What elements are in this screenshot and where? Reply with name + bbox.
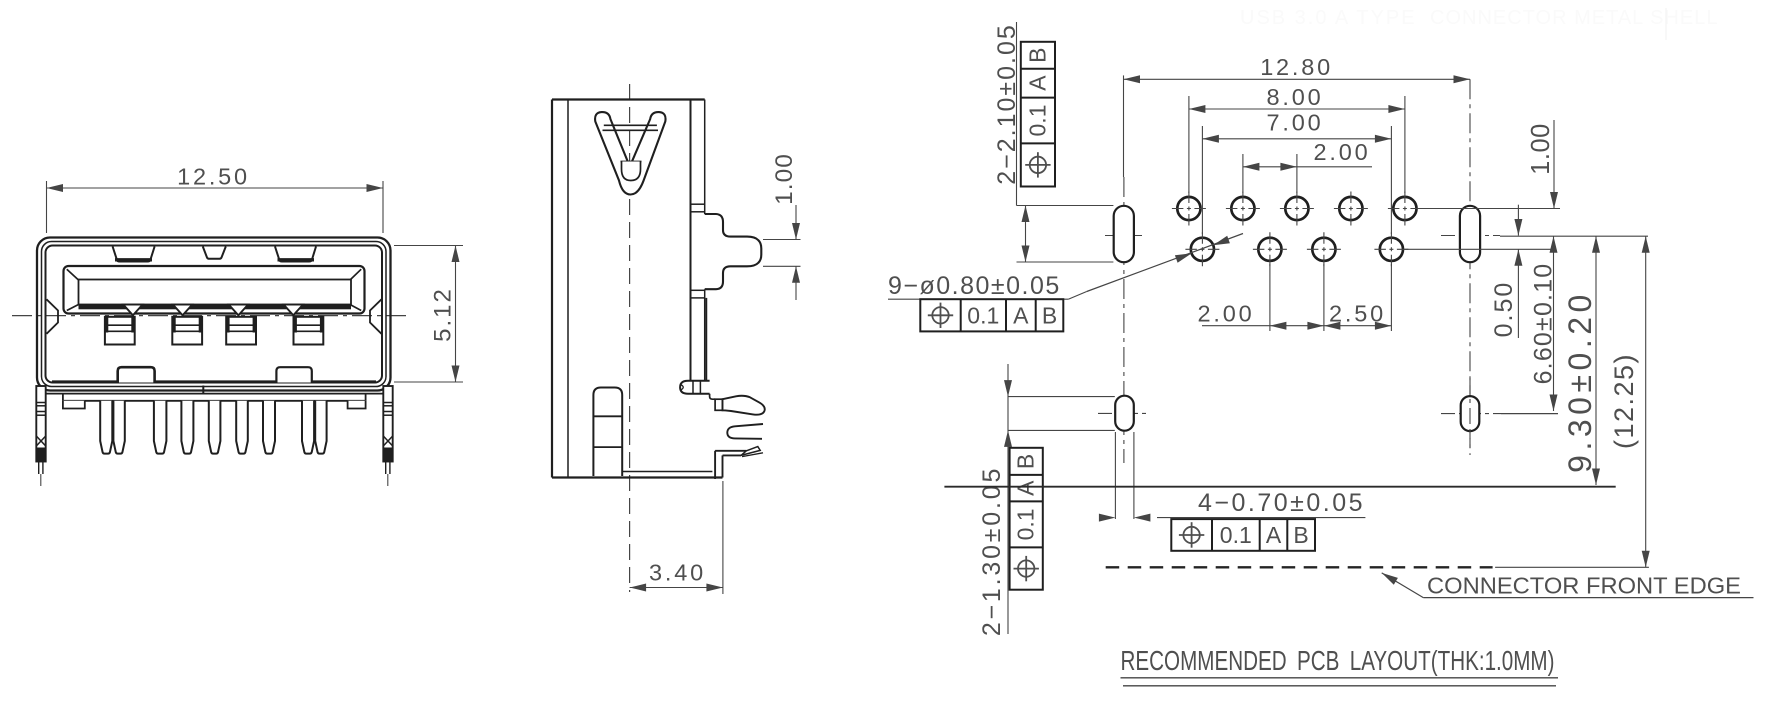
connector front edge dashed line bbox=[1106, 566, 1649, 568]
front view top spring tab left bbox=[113, 247, 155, 262]
dimension 2.00 / 2.50 bottom bbox=[1198, 264, 1392, 331]
horizontal datum line through upper slots bbox=[1105, 235, 1648, 238]
side view bottom edge bbox=[552, 472, 723, 478]
hole top row #1 bbox=[1172, 192, 1206, 226]
hole top row #2 bbox=[1226, 192, 1260, 226]
dimension 0.50 bbox=[1403, 205, 1556, 338]
feature control frame for 4-0.70 bbox=[1171, 519, 1315, 551]
feature control frame for 2-1.30 slots bbox=[1010, 448, 1043, 590]
side view SMT contact finger lower bbox=[727, 424, 763, 439]
front view mounting leg left bbox=[36, 386, 45, 486]
vertical centerline through left slots bbox=[1123, 75, 1125, 463]
svg-text:A: A bbox=[1013, 480, 1039, 496]
side view dashed centerline bbox=[629, 84, 631, 592]
side view body outline bbox=[552, 100, 705, 478]
front view mounting leg right bbox=[383, 386, 392, 486]
svg-text:0.50: 0.50 bbox=[1490, 281, 1518, 338]
side view through pin shaft bbox=[680, 298, 710, 394]
front view bottom tab left bbox=[118, 367, 155, 382]
svg-text:B: B bbox=[1013, 454, 1039, 469]
svg-text:A: A bbox=[1013, 302, 1029, 328]
front view bottom center seam bbox=[202, 386, 204, 394]
hole top row #3 bbox=[1280, 192, 1314, 226]
svg-text:2.00: 2.00 bbox=[1198, 301, 1255, 327]
svg-text:0.1: 0.1 bbox=[1024, 105, 1050, 137]
feature control frame for 9 holes bbox=[920, 299, 1063, 331]
label CONNECTOR FRONT EDGE bbox=[1382, 573, 1754, 599]
front view tongue outer prism bbox=[64, 266, 365, 314]
vertical centerline through right slots bbox=[1469, 79, 1471, 455]
svg-text:CONNECTOR METAL SHELL: CONNECTOR METAL SHELL bbox=[1430, 7, 1718, 29]
svg-text:12.50: 12.50 bbox=[177, 164, 250, 190]
svg-text:B: B bbox=[1024, 48, 1050, 63]
svg-text:(12.25): (12.25) bbox=[1609, 353, 1639, 449]
svg-text:USB 3.0 A TYPE: USB 3.0 A TYPE bbox=[1240, 7, 1417, 29]
front view top spring tab center bbox=[203, 247, 226, 259]
dimension 9.30+-0.20 bbox=[1562, 236, 1600, 485]
front view tongue front face bbox=[79, 280, 352, 305]
lower slot vertical centerline right bbox=[1469, 378, 1471, 448]
PCB reference edge line bbox=[944, 486, 1615, 488]
svg-text:0.1: 0.1 bbox=[1013, 508, 1039, 540]
svg-text:RECOMMENDED PCB LAYOUT(THK:1.0: RECOMMENDED PCB LAYOUT(THK:1.0MM) bbox=[1121, 645, 1555, 676]
hole bottom row #2 bbox=[1253, 232, 1287, 266]
side view left leg block bbox=[593, 388, 622, 477]
front view tongue contact V-notches (4) bbox=[123, 305, 303, 316]
dimension 5.12 vertical (front view height) bbox=[394, 246, 463, 383]
front view horizontal centerline bbox=[12, 315, 410, 317]
front view top spring tab right bbox=[275, 247, 316, 262]
svg-text:B: B bbox=[1042, 302, 1057, 328]
svg-text:4−0.70±0.05: 4−0.70±0.05 bbox=[1198, 489, 1365, 517]
dimension 4-0.70+-0.05 slot width bbox=[1099, 432, 1366, 522]
front view left wall notch bbox=[47, 299, 59, 334]
front view outer shell (3 nested rounded rects) bbox=[37, 238, 391, 391]
label 2-1.30+-0.05 with extension bbox=[978, 364, 1115, 636]
slot 2.10x0.8 upper left bbox=[1114, 206, 1134, 262]
side view V-shaped latch spring bbox=[595, 112, 665, 194]
svg-text:6.60±0.10: 6.60±0.10 bbox=[1530, 263, 1558, 385]
dimension (12.25) bbox=[1609, 236, 1650, 567]
front view bottom tab right bbox=[276, 367, 311, 382]
dimension 1.00 (tab thickness, side view) bbox=[763, 153, 801, 300]
front view base foot right bbox=[348, 401, 366, 409]
dimension 12.50 horizontal (front view width) bbox=[47, 164, 384, 234]
front view tongue thick bottom band bbox=[79, 304, 352, 309]
front view base plate bbox=[46, 394, 388, 401]
svg-text:9.30±0.20: 9.30±0.20 bbox=[1562, 290, 1598, 473]
svg-text:A: A bbox=[1024, 75, 1050, 91]
side view SMT contact finger upper bbox=[710, 394, 765, 415]
dimension 3.40 (side view) bbox=[630, 481, 723, 594]
hole bottom row #1 bbox=[1185, 232, 1219, 266]
hole top row #4 bbox=[1334, 192, 1368, 226]
front view lower contacts (4) bbox=[105, 317, 323, 345]
svg-text:2−1.30±0.05: 2−1.30±0.05 bbox=[978, 466, 1006, 636]
dimension 1.00 (hole row to datum) bbox=[1418, 120, 1560, 209]
svg-text:CONNECTOR FRONT EDGE: CONNECTOR FRONT EDGE bbox=[1427, 573, 1741, 599]
svg-text:1.00: 1.00 bbox=[1527, 123, 1555, 175]
front view bottom inner edge thick line bbox=[52, 380, 376, 383]
svg-text:12.80: 12.80 bbox=[1260, 54, 1333, 80]
dimension 7.00 bbox=[1202, 110, 1391, 235]
dimension 8.00 bbox=[1189, 84, 1405, 193]
side view board-lock tab bbox=[705, 214, 762, 289]
svg-text:2.00: 2.00 bbox=[1314, 139, 1371, 165]
svg-text:A: A bbox=[1266, 522, 1282, 548]
svg-text:9−ø0.80±0.05: 9−ø0.80±0.05 bbox=[888, 272, 1061, 300]
slot 1.30x0.7 lower right bbox=[1461, 396, 1480, 431]
svg-text:0.1: 0.1 bbox=[967, 302, 999, 328]
label 9-dia0.80+-0.05 bbox=[888, 272, 1087, 300]
svg-text:1.00: 1.00 bbox=[771, 153, 798, 205]
front view tongue chamfer diagonals bbox=[67, 269, 361, 310]
label 2-2.10+-0.05 with extension bbox=[993, 22, 1113, 262]
slot 2.10x0.8 upper right bbox=[1460, 206, 1480, 262]
svg-text:7.00: 7.00 bbox=[1267, 110, 1324, 136]
dimension 2.00 top bbox=[1243, 139, 1372, 193]
svg-text:8.00: 8.00 bbox=[1267, 84, 1324, 110]
svg-text:5.12: 5.12 bbox=[430, 287, 457, 342]
feature control frame for 2-2.10 slots bbox=[1021, 42, 1055, 187]
horizontal centerlines through lower slots bbox=[1098, 412, 1558, 414]
svg-text:2.50: 2.50 bbox=[1329, 301, 1386, 327]
svg-text:3.40: 3.40 bbox=[649, 560, 706, 586]
dimension 6.60+-0.10 bbox=[1530, 236, 1558, 411]
slot 1.30x0.7 lower left bbox=[1115, 396, 1134, 431]
svg-text:0.1: 0.1 bbox=[1220, 522, 1252, 548]
front view right wall notch bbox=[370, 299, 382, 334]
hole top row #5 bbox=[1388, 192, 1422, 226]
faint ghost text artifacts at top bbox=[1240, 7, 1718, 40]
svg-text:B: B bbox=[1293, 522, 1308, 548]
front view base foot left bbox=[63, 401, 85, 409]
leader line from 9-dia0.80 label to hole bbox=[1087, 234, 1243, 292]
dimension 12.80 bbox=[1124, 54, 1471, 83]
front view solder pins (9) bbox=[100, 401, 326, 454]
side view bottom bracket foot bbox=[715, 447, 763, 479]
hole bottom row #4 bbox=[1374, 232, 1408, 266]
title RECOMMENDED PCB LAYOUT bbox=[1121, 645, 1559, 686]
hole bottom row #3 bbox=[1307, 232, 1341, 266]
